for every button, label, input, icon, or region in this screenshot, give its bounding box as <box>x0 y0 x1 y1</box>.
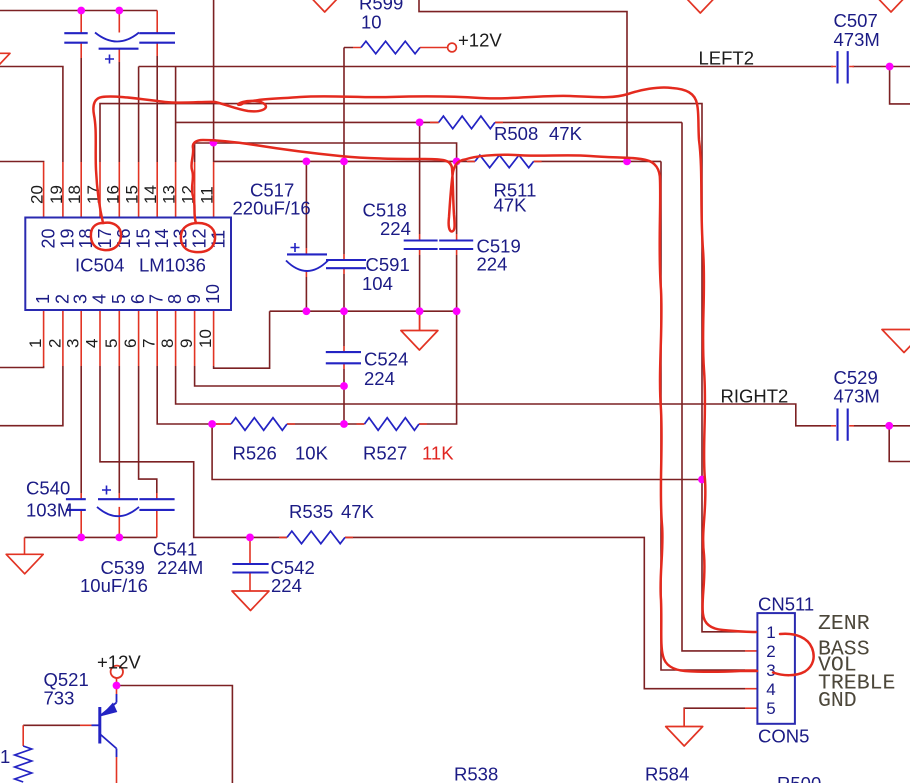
svg-text:14: 14 <box>152 228 172 248</box>
svg-text:15: 15 <box>133 228 153 248</box>
wire RIGHT2 after C529 to junction and right edge <box>854 426 910 462</box>
wire pin6 route to C541 <box>139 366 157 493</box>
capacitor C507 plates <box>838 51 848 83</box>
wire C517 column <box>305 161 307 311</box>
wire pin16 column below cap <box>118 62 120 162</box>
junction y479 wire <box>698 476 706 484</box>
transistor Q2 Q521 base bar <box>98 707 101 744</box>
svg-text:224: 224 <box>380 218 411 239</box>
Q521 emitter diagonal <box>101 735 117 758</box>
annotation loop around pin 12 <box>181 223 215 252</box>
svg-text:ZENR: ZENR <box>818 612 870 636</box>
svg-text:1: 1 <box>766 623 775 642</box>
wire pin11 column from top edge <box>213 0 215 162</box>
resistor R508 <box>439 116 495 129</box>
junction C540 bottom <box>77 534 85 542</box>
svg-text:1: 1 <box>0 746 10 767</box>
ground top at x=325 (clipped) <box>306 0 343 12</box>
ground left edge (clipped) <box>0 53 10 73</box>
R535 red leads <box>279 536 353 538</box>
ground top right (clipped) <box>873 0 910 12</box>
svg-text:C507: C507 <box>834 10 878 31</box>
svg-text:7: 7 <box>147 294 167 304</box>
junction R526 left <box>208 420 216 428</box>
junction Q521 +12V <box>113 682 121 690</box>
wire pin8 RIGHT2 net <box>176 366 831 426</box>
C517 red pins <box>305 248 307 277</box>
ground top at x=700 (clipped) <box>682 0 719 13</box>
junction R511 right <box>623 158 631 166</box>
resistor R526 <box>231 418 287 431</box>
svg-text:LEFT2: LEFT2 <box>699 48 755 69</box>
IC op-amp U1 IC504 LM1036 box <box>25 218 231 311</box>
svg-text:R508: R508 <box>494 123 538 144</box>
svg-text:224M: 224M <box>157 557 203 578</box>
svg-text:R535: R535 <box>289 501 333 522</box>
svg-text:8: 8 <box>158 339 177 348</box>
C524 red pins <box>343 346 345 369</box>
resistor R511 <box>475 155 534 168</box>
svg-text:+12V: +12V <box>97 652 141 673</box>
Q521 emitter arrow <box>100 703 117 717</box>
svg-text:10: 10 <box>196 329 215 348</box>
svg-text:473M: 473M <box>834 386 880 407</box>
plus sign top-left electrolytic <box>105 55 114 64</box>
capacitor C519 plates <box>439 241 473 250</box>
svg-text:1: 1 <box>33 294 53 304</box>
C507 red leads <box>831 66 854 68</box>
wire R527 row and riser to ground bus <box>344 311 457 424</box>
resistor R535 <box>287 531 345 544</box>
svg-text:16: 16 <box>103 185 122 204</box>
IC504 pin stubs bottom (pins 1..10) <box>44 310 214 366</box>
capacitor C542 plates <box>232 564 268 573</box>
junction C524 bottom <box>340 382 348 390</box>
svg-text:C524: C524 <box>364 349 408 370</box>
wire LEFT2 after C507 to junction and right edge <box>853 67 910 104</box>
wire C519 column <box>456 161 458 311</box>
C542 red pins and stub <box>249 537 251 591</box>
svg-text:GND: GND <box>818 689 857 713</box>
svg-text:R538: R538 <box>454 764 498 783</box>
ground stub CN511 <box>683 708 685 726</box>
svg-text:733: 733 <box>44 688 75 709</box>
svg-text:IC504: IC504 <box>75 255 124 276</box>
wire R511 drop to CN511 pin3 <box>661 161 745 670</box>
svg-text:2: 2 <box>766 642 775 661</box>
svg-text:R500: R500 <box>777 773 821 783</box>
svg-text:6: 6 <box>121 339 140 348</box>
junction pin11/pin12 wire <box>210 139 218 147</box>
annotation line pin17 up and across to CN511 pin1 <box>93 87 756 632</box>
wire pin12 to y=143 across to x=456.6 <box>195 143 457 162</box>
svg-text:14: 14 <box>141 185 160 204</box>
svg-text:15: 15 <box>123 185 142 204</box>
svg-text:220uF/16: 220uF/16 <box>233 198 311 219</box>
wire pin18 column below cap <box>80 58 82 162</box>
svg-text:10K: 10K <box>295 443 329 464</box>
svg-text:224: 224 <box>477 254 508 275</box>
svg-text:CN511: CN511 <box>758 594 814 615</box>
capacitor C540 plates <box>66 499 86 510</box>
svg-text:20: 20 <box>28 185 47 204</box>
wire R526 body row <box>212 423 344 425</box>
wire LEFT2 net horizontal <box>139 66 833 68</box>
junction C529 right <box>885 422 893 430</box>
junction C519 top <box>453 158 461 166</box>
capacitor C517 electrolytic plates <box>287 253 327 255</box>
svg-text:20: 20 <box>38 228 58 248</box>
Q521 collector diagonal <box>101 694 117 716</box>
svg-text:4: 4 <box>90 294 110 304</box>
wire R535 row to drop at x=644 to CN511 pin4 <box>250 537 745 688</box>
wire pin4 route to R535 junction <box>100 366 250 537</box>
svg-text:18: 18 <box>65 185 84 204</box>
wire C518 column from R508 junction <box>419 122 421 311</box>
svg-text:6: 6 <box>128 294 148 304</box>
capacitor C512 top-left flat cap plates <box>64 33 87 43</box>
svg-text:C540: C540 <box>26 478 70 499</box>
svg-text:4: 4 <box>83 339 102 348</box>
wire ground bus y=311 <box>270 310 457 312</box>
capacitor C591 plates <box>326 260 366 268</box>
svg-text:3: 3 <box>71 294 91 304</box>
C529 red leads <box>831 425 854 427</box>
capacitor top-left electrolytic plates (flipped) <box>99 48 139 50</box>
svg-text:3: 3 <box>64 339 83 348</box>
wire pin1 to left edge <box>0 366 44 368</box>
svg-text:C591: C591 <box>366 254 410 275</box>
svg-text:CON5: CON5 <box>758 726 809 747</box>
svg-text:7: 7 <box>140 339 159 348</box>
C540 C539 C541 red pins <box>81 493 157 537</box>
wire pin15 stem <box>138 67 140 163</box>
annotation C-loop right of CN511 pins 1-3 <box>773 634 814 675</box>
capacitor C518 plates <box>404 241 438 250</box>
wire pin13 column from LEFT2 <box>175 67 177 163</box>
svg-text:47K: 47K <box>549 123 583 144</box>
C519 red pins <box>456 234 458 255</box>
wire pin20 to left edge <box>0 161 44 164</box>
cap column red stubs top group (C pins) <box>81 11 157 63</box>
svg-text:RIGHT2: RIGHT2 <box>721 386 789 407</box>
ground at C542 <box>232 591 269 611</box>
svg-text:9: 9 <box>184 294 204 304</box>
junction R508/C518 <box>416 119 424 127</box>
ground at C518 <box>401 331 438 351</box>
ground bottom-left <box>6 554 43 574</box>
junction C591/R599 <box>340 158 348 166</box>
svg-text:12: 12 <box>189 228 209 248</box>
svg-text:104: 104 <box>362 273 393 294</box>
junction C517 bottom <box>303 307 311 315</box>
svg-text:19: 19 <box>47 185 66 204</box>
wire pin2 to left edge <box>0 366 63 426</box>
R527 red leads <box>357 423 428 425</box>
resistor R599 <box>361 41 420 54</box>
Q521 base lead <box>92 724 100 726</box>
svg-text:2: 2 <box>52 294 72 304</box>
wire ground bus at C540/C539/C541 bottoms <box>25 536 157 538</box>
resistor at bottom-left edge (vertical) <box>15 746 32 782</box>
svg-text:9: 9 <box>177 339 196 348</box>
svg-text:11: 11 <box>208 230 228 249</box>
svg-text:17: 17 <box>95 228 115 248</box>
wire pin17 net to x=702 down to CN511 pin1 <box>100 104 745 632</box>
junction C-group left on top net <box>77 7 85 15</box>
wire C591/C524 column x=344 <box>343 161 345 424</box>
svg-text:473M: 473M <box>834 29 880 50</box>
connector CN511 box <box>757 613 795 724</box>
svg-text:LM1036: LM1036 <box>139 255 206 276</box>
wire R526 junction drop to y=479 across to x=702 <box>212 424 702 480</box>
svg-text:R527: R527 <box>363 443 407 464</box>
svg-text:10uF/16: 10uF/16 <box>80 575 148 596</box>
R508 red leads <box>430 121 503 123</box>
wire pin3 column to C540 <box>80 366 82 493</box>
capacitor C529 plates <box>838 409 848 441</box>
wire pin19 to left edge <box>0 67 63 163</box>
junction C519 bottom <box>453 307 461 315</box>
ground at CN511 pin5 <box>666 727 703 747</box>
wire pin7 route to R526 <box>157 366 212 424</box>
annotation loop around pin 17 <box>91 223 121 250</box>
plus sign C517 <box>291 243 300 252</box>
ground right edge <box>882 330 910 353</box>
svg-text:5: 5 <box>766 699 775 718</box>
capacitor C539 electrolytic plates <box>98 498 138 500</box>
svg-text:10: 10 <box>361 12 382 33</box>
junction C-group mid on top net <box>115 7 123 15</box>
R599 red leads and +12V stub <box>353 47 447 49</box>
junction C539 bottom <box>115 534 123 542</box>
wire pin14 column through cap <box>156 56 158 162</box>
svg-text:3: 3 <box>766 661 775 680</box>
junction C517 top <box>303 158 311 166</box>
Q521 red pins <box>23 678 116 783</box>
junction R535/C542 <box>246 534 254 542</box>
svg-text:5: 5 <box>109 294 129 304</box>
junction R526/R527 <box>340 420 348 428</box>
plus sign C539 <box>102 486 111 495</box>
svg-text:8: 8 <box>165 294 185 304</box>
resistor R527 <box>365 418 419 431</box>
wire top net to caps C-group (y=10.5) <box>0 10 157 12</box>
svg-text:4: 4 <box>766 680 775 699</box>
R526 red leads <box>216 423 295 425</box>
wire bass/treble row y=161.4 with R511 <box>214 160 661 162</box>
+12V power circle top <box>448 43 457 52</box>
wire R508 row <box>176 121 682 123</box>
+12V power circle at Q521 <box>111 666 123 678</box>
wire R599 left lead down to junction <box>344 48 353 162</box>
junction C507 right <box>886 63 894 71</box>
ground stub at C518 <box>419 311 421 330</box>
svg-text:13: 13 <box>160 185 179 204</box>
wire pin9 route to C524 bottom <box>195 366 344 386</box>
C591 red pins <box>343 254 345 274</box>
svg-text:11K: 11K <box>422 443 454 464</box>
svg-text:224: 224 <box>271 575 302 596</box>
wire R508 drop to CN511 pin2 <box>682 122 745 651</box>
wire pin10 route up to ground bus <box>214 311 270 368</box>
svg-text:19: 19 <box>58 228 78 248</box>
junction C518 bottom ground <box>416 307 424 315</box>
svg-text:+12V: +12V <box>458 30 502 51</box>
junction C591 bottom <box>340 307 348 315</box>
capacitor C541 plates <box>139 499 174 510</box>
wire from top edge at x=419 to x=627 down to R511 right junction <box>419 0 627 161</box>
wire pin5 column to C539 <box>118 366 120 493</box>
wire Q521 base to left edge <box>23 724 80 726</box>
svg-text:R584: R584 <box>645 764 689 783</box>
svg-text:224: 224 <box>364 368 395 389</box>
svg-text:47K: 47K <box>494 195 528 216</box>
svg-text:5: 5 <box>102 339 121 348</box>
annotation line pin12 up across to CN511 pin3 <box>191 140 757 672</box>
svg-text:1: 1 <box>26 339 45 348</box>
svg-text:10: 10 <box>203 284 223 304</box>
IC504 pin stubs top (pins 20..11) <box>44 162 214 218</box>
wire Q521 +12V rail to right and bottom edge <box>117 686 233 783</box>
capacitor C524 plates <box>326 352 361 363</box>
C518 red pins <box>419 234 421 331</box>
R511 red leads <box>467 160 542 162</box>
svg-text:47K: 47K <box>341 501 375 522</box>
wire CN511 pin5 to ground <box>684 708 745 726</box>
svg-text:R526: R526 <box>233 443 277 464</box>
svg-text:2: 2 <box>45 339 64 348</box>
CN511 red pin stubs <box>745 632 757 708</box>
ground stub bottom-left <box>24 537 26 554</box>
svg-text:11: 11 <box>198 186 217 204</box>
svg-text:103M: 103M <box>26 500 72 521</box>
capacitor top-left right flat cap plates <box>139 33 175 43</box>
